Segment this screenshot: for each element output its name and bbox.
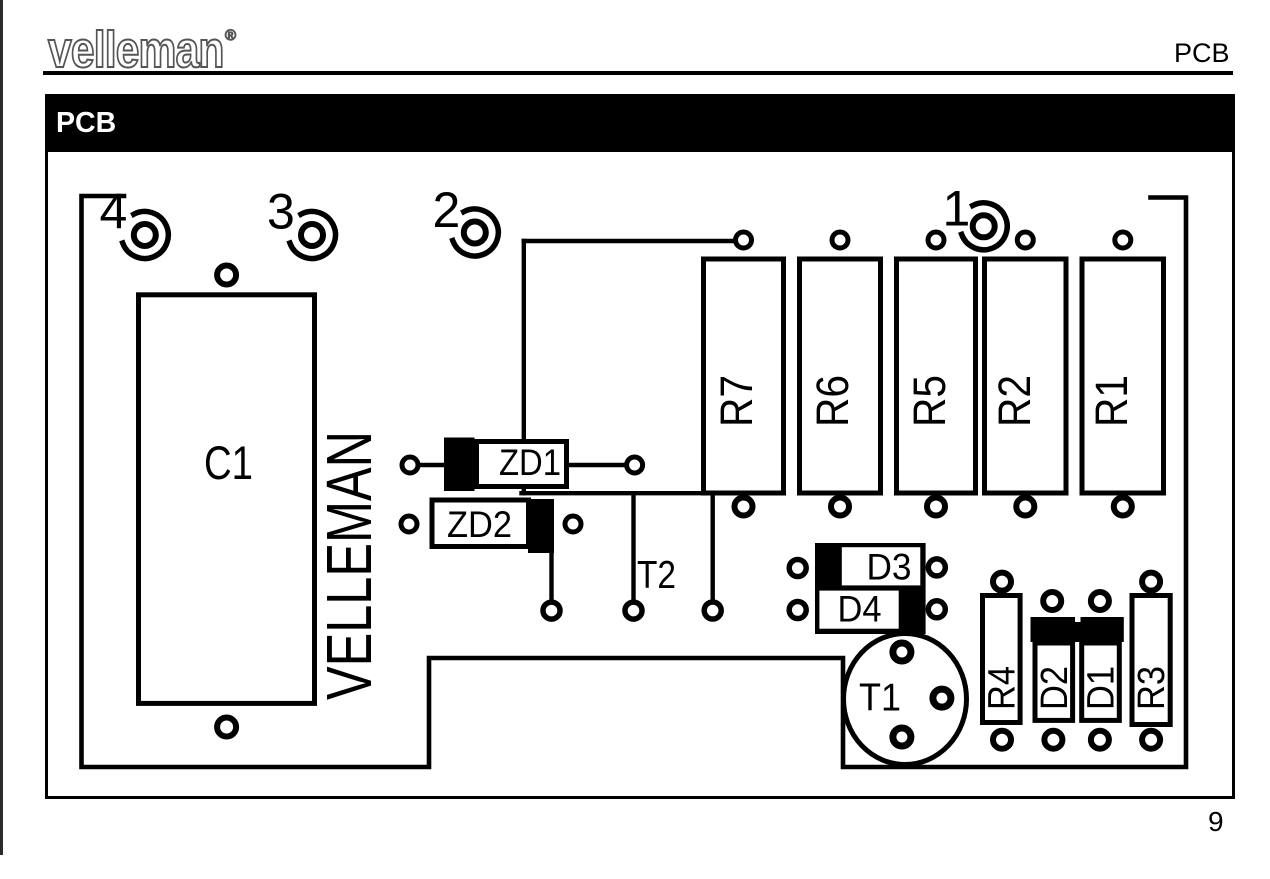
black header bar with PCB (45, 94, 1235, 152)
resistor R4 box (983, 596, 1021, 723)
pad R6 top (832, 232, 848, 248)
outer frame (45, 94, 1235, 799)
page number (1208, 806, 1224, 838)
board outline (82, 196, 1187, 767)
diodes D2/D1 band (1031, 617, 1124, 642)
resistor R3 box (1132, 596, 1170, 725)
svg-text:R3: R3 (1131, 666, 1173, 710)
pad R6 bottom (831, 498, 849, 516)
diode D4 white label box (819, 591, 898, 629)
pad R1 top (1115, 232, 1131, 248)
mounting hole 4 (123, 211, 169, 258)
pad R4 bottom (993, 731, 1011, 749)
svg-text:D1: D1 (1081, 666, 1123, 710)
pad D4 right (928, 601, 945, 618)
pad R7 bottom (735, 498, 753, 516)
pad R3 top (1142, 573, 1160, 591)
wire ZD1 left (413, 463, 448, 467)
pad ZD1 right (627, 457, 643, 473)
wire drop T2 (631, 493, 635, 610)
mounting hole 1 (962, 203, 1008, 250)
pad D1 top (1091, 592, 1109, 610)
zener ZD1 box (477, 442, 567, 487)
svg-text:R2: R2 (989, 375, 1040, 427)
svg-text:D4: D4 (838, 588, 882, 629)
svg-text:D2: D2 (1034, 666, 1076, 710)
svg-text:R6: R6 (807, 375, 858, 427)
diode D1 box (1082, 643, 1120, 720)
svg-text:3: 3 (267, 184, 295, 240)
resistor R5 box (897, 259, 976, 493)
pad R5 top (928, 232, 944, 248)
svg-text:ZD1: ZD1 (499, 442, 561, 483)
pad D4 left (789, 602, 806, 619)
pad T1 top (893, 643, 911, 661)
pad C1 top (217, 266, 236, 285)
wire drop ZD2 band (549, 520, 553, 610)
diode D2 box (1035, 643, 1073, 720)
svg-text:R1: R1 (1086, 375, 1137, 427)
svg-text:D3: D3 (867, 546, 912, 587)
resistor R2 box (985, 259, 1067, 493)
pads (217, 232, 1160, 749)
svg-text:R4: R4 (981, 666, 1023, 710)
pad R3 bottom (1142, 731, 1160, 749)
wire top horizontal to R7 pad (524, 239, 740, 243)
pad ZD2 right (565, 516, 581, 532)
pad C1 bottom (217, 718, 236, 737)
resistor R7 box (704, 259, 784, 493)
pad R2 bottom (1016, 498, 1034, 516)
capacitor C1 (139, 295, 315, 704)
pad R2 top (1017, 232, 1033, 248)
pad T1 right (933, 689, 951, 707)
svg-text:R7: R7 (711, 375, 762, 427)
velleman logo (48, 24, 248, 70)
mounting hole 3 (290, 211, 336, 258)
wire rail (522, 491, 713, 495)
svg-text:T1: T1 (859, 676, 901, 719)
left page edge bar (0, 0, 3, 855)
pad T1 bottom (893, 728, 911, 746)
svg-text:1: 1 (943, 181, 971, 237)
mounting hole 2 (453, 209, 499, 256)
resistor R1 box (1082, 259, 1164, 493)
pad drop T2 (625, 602, 642, 619)
top-right PCB text (1174, 38, 1230, 69)
svg-text:2: 2 (433, 182, 461, 238)
wire ZD1 top vertical (522, 241, 526, 493)
diode D3 white label box (842, 547, 921, 585)
pad D1 bottom (1091, 731, 1109, 749)
pad D3 right (928, 559, 945, 576)
zener ZD2 box (432, 500, 529, 547)
svg-text:VELLEMAN: VELLEMAN (313, 431, 385, 700)
diodes D3/D4 assembly black body (815, 543, 926, 634)
pad D2 bottom (1044, 731, 1062, 749)
band notch (1075, 615, 1081, 622)
pad R7 top (736, 232, 752, 248)
wire ZD1 right (566, 463, 634, 467)
pad R5 bottom (927, 498, 945, 516)
pad R1 bottom (1114, 498, 1132, 516)
transistor T1 (844, 634, 967, 765)
zener ZD1 band (444, 438, 475, 492)
pad D3 left (789, 560, 806, 577)
pad D2 top (1043, 592, 1061, 610)
pad ZD1 left (402, 457, 418, 473)
pad drop right (704, 602, 721, 619)
svg-text:ZD2: ZD2 (447, 504, 512, 545)
pad ZD2 left (401, 516, 417, 532)
horizontal rule (43, 71, 1233, 75)
pad drop ZD2 (543, 602, 560, 619)
svg-text:4: 4 (100, 184, 128, 240)
svg-text:T2: T2 (637, 554, 676, 597)
svg-text:R5: R5 (904, 375, 955, 427)
pad R4 top (993, 573, 1011, 591)
zener ZD2 band (528, 499, 554, 553)
resistor R6 box (800, 259, 881, 493)
svg-text:C1: C1 (204, 437, 253, 490)
wire drop right (711, 493, 715, 610)
